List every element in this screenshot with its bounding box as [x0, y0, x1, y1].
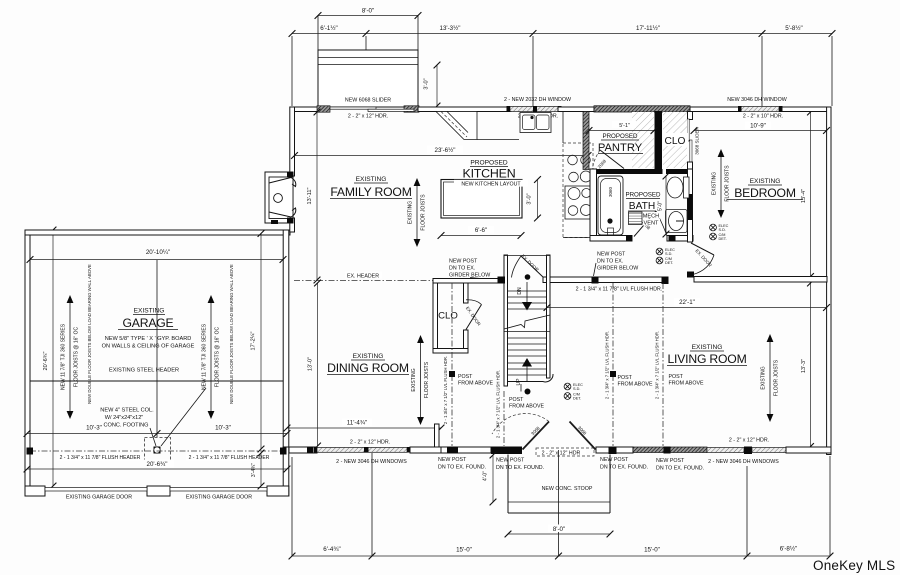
svg-text:PANTRY: PANTRY — [598, 142, 643, 154]
svg-text:LIVING ROOM: LIVING ROOM — [667, 352, 746, 366]
family room west wall — [290, 107, 295, 176]
svg-text:DN TO EX. FOUND.: DN TO EX. FOUND. — [600, 465, 648, 471]
svg-text:NEW 5/8" TYPE ' X ' GYP. BOARD: NEW 5/8" TYPE ' X ' GYP. BOARD — [105, 336, 192, 342]
svg-text:BEDROOM: BEDROOM — [734, 186, 796, 200]
family floor joists arrow — [416, 185, 418, 240]
clo interior hatch — [663, 112, 687, 168]
wall right of entry — [596, 447, 633, 453]
svg-text:FLOOR JOISTS: FLOOR JOISTS — [774, 359, 780, 396]
svg-text:EXISTING: EXISTING — [761, 366, 767, 389]
bath west wall — [590, 169, 597, 237]
svg-text:15'-0": 15'-0" — [456, 547, 472, 554]
left dimension 20-6 — [52, 230, 54, 486]
bottom wall dining segment — [289, 447, 317, 453]
svg-text:GIRDER BELOW: GIRDER BELOW — [597, 266, 638, 272]
stair treads upper — [508, 290, 547, 292]
bedroom entry door ex door — [691, 243, 714, 255]
garage dimension 17-2 right — [260, 234, 262, 450]
svg-text:NEW DOUBLE FLOOR JOISTS BELOW: NEW DOUBLE FLOOR JOISTS BELOW LOAD BEARI… — [229, 264, 234, 404]
pantry/bath divider wall — [590, 169, 663, 174]
svg-text:2 - 1 3/4" x 7 1/2" LVL FLUSH: 2 - 1 3/4" x 7 1/2" LVL FLUSH HDR. — [605, 331, 610, 399]
svg-text:EXISTING: EXISTING — [408, 201, 414, 224]
svg-text:8'-0": 8'-0" — [362, 8, 374, 15]
fireplace — [265, 172, 293, 223]
pantry/closet top wall (new, hatched) — [594, 106, 690, 112]
svg-text:NEW POST: NEW POST — [600, 457, 629, 463]
svg-text:NEW KITCHEN LAYOUT: NEW KITCHEN LAYOUT — [461, 182, 521, 188]
svg-text:NEW 3046 DH WINDOW: NEW 3046 DH WINDOW — [727, 97, 786, 103]
svg-text:FROM ABOVE: FROM ABOVE — [618, 382, 653, 388]
kitchen window 2-2032 — [510, 107, 558, 112]
deck / landing at slider — [318, 50, 418, 107]
bath dimension 5-0 — [665, 176, 667, 234]
svg-text:2 - NEW 3046 DH WINDOWS: 2 - NEW 3046 DH WINDOWS — [336, 459, 407, 465]
svg-text:NEW CONC. STOOP: NEW CONC. STOOP — [542, 486, 593, 492]
beam line B — [503, 391, 505, 446]
svg-text:2 - 1 3/4" x 11 7/8" FLUSH HEA: 2 - 1 3/4" x 11 7/8" FLUSH HEADER — [60, 455, 141, 461]
svg-text:13'-4": 13'-4" — [801, 189, 807, 203]
svg-text:6'-4¾": 6'-4¾" — [323, 546, 340, 553]
beam line A — [451, 283, 453, 446]
svg-text:3'-0": 3'-0" — [527, 193, 533, 204]
garage dimension 3-4 right — [260, 453, 262, 486]
dining south stub wall — [435, 424, 440, 447]
low hatched wall — [633, 447, 707, 453]
dimension 3-0 deck — [436, 65, 438, 106]
svg-text:S.D.: S.D. — [573, 387, 580, 391]
svg-text:W/ 24"x24"x12": W/ 24"x24"x12" — [105, 415, 144, 421]
svg-text:FLOOR JOISTS @ 16" OC: FLOOR JOISTS @ 16" OC — [215, 327, 221, 388]
svg-text:11'-4¾": 11'-4¾" — [347, 420, 367, 427]
svg-text:FLOOR JOISTS: FLOOR JOISTS — [424, 361, 430, 398]
clo east wall + slider — [688, 112, 693, 120]
bath east wall — [688, 169, 693, 242]
dining dimension 13-0 — [317, 283, 319, 446]
svg-text:POST: POST — [458, 374, 473, 380]
svg-text:EXISTING: EXISTING — [134, 308, 165, 315]
svg-text:NEW 11 7/8" TJI 360 SERIES: NEW 11 7/8" TJI 360 SERIES — [202, 323, 208, 390]
entry door right 3068 — [570, 422, 596, 450]
svg-text:23'-6½": 23'-6½" — [435, 147, 456, 154]
post from above stairs — [525, 389, 531, 395]
svg-text:NEW POST: NEW POST — [438, 457, 467, 463]
svg-text:EXISTING: EXISTING — [353, 353, 384, 360]
dimension 6-6 island — [441, 235, 521, 237]
svg-text:NEW 6068 SLIDER: NEW 6068 SLIDER — [345, 98, 391, 104]
svg-text:13'-3": 13'-3" — [801, 359, 807, 373]
right dimension 13-3 living — [810, 283, 812, 447]
stair UP arrow — [526, 366, 528, 381]
bedroom south wall — [694, 277, 827, 283]
garage joist labels left — [69, 302, 71, 412]
svg-text:NEW 4" STEEL COL.: NEW 4" STEEL COL. — [100, 408, 154, 414]
svg-text:2 - 2" x 12" HDR: 2 - 2" x 12" HDR — [542, 451, 581, 457]
svg-text:3'-0": 3'-0" — [424, 78, 430, 89]
svg-text:NEW 11 7/8" TJI 360 SERIES: NEW 11 7/8" TJI 360 SERIES — [61, 323, 67, 390]
svg-text:FLOOR JOISTS @ 16" OC: FLOOR JOISTS @ 16" OC — [74, 327, 80, 388]
kitchen island — [441, 180, 522, 219]
svg-text:15'-0": 15'-0" — [644, 547, 660, 554]
svg-text:10'-9": 10'-9" — [750, 123, 766, 130]
svg-text:20'-6¾": 20'-6¾" — [147, 461, 168, 468]
living windows 2-3046 — [707, 448, 744, 453]
new 6068 slider — [317, 106, 330, 112]
svg-text:22'-1": 22'-1" — [679, 299, 695, 306]
svg-text:20'-6¾": 20'-6¾" — [43, 352, 49, 371]
living floor joists — [769, 341, 771, 415]
lvl flush header wall — [543, 277, 663, 283]
bedroom floor joists — [720, 156, 722, 211]
svg-text:13'-0": 13'-0" — [308, 357, 314, 371]
dining dimension 11-4 — [287, 427, 441, 429]
svg-text:2 - 1 3/4" x 7 1/2" LVL FLUSH: 2 - 1 3/4" x 7 1/2" LVL FLUSH HDR. — [443, 356, 448, 424]
svg-text:DN: DN — [517, 287, 523, 295]
svg-text:DN TO EX. FOUND.: DN TO EX. FOUND. — [656, 466, 704, 472]
kitchen counter edge — [562, 112, 564, 143]
svg-text:2 - 2" x 10" HDR.: 2 - 2" x 10" HDR. — [743, 114, 783, 120]
stoop dimension 8-0 — [508, 533, 610, 535]
right wall — [827, 107, 831, 455]
svg-text:2 - NEW 2032 DH WINDOW: 2 - NEW 2032 DH WINDOW — [504, 97, 571, 103]
svg-text:2 - 2" x 12" HDR.: 2 - 2" x 12" HDR. — [350, 440, 390, 446]
garage joist labels right — [210, 302, 212, 412]
svg-text:8'-0": 8'-0" — [553, 526, 565, 533]
stoop dimension 4-0 — [492, 455, 494, 502]
svg-text:EXISTING STEEL HEADER: EXISTING STEEL HEADER — [109, 368, 179, 374]
stair top ex door — [521, 256, 544, 278]
garage front wall jambs — [25, 486, 45, 496]
toilet — [684, 177, 690, 198]
bath sink — [666, 210, 688, 233]
bedroom dimension 10-9 — [694, 130, 827, 132]
svg-text:POST: POST — [618, 375, 633, 381]
svg-text:PROPOSED: PROPOSED — [625, 192, 661, 199]
svg-text:FROM ABOVE: FROM ABOVE — [509, 404, 544, 410]
stairwell walls — [504, 255, 508, 386]
svg-text:10'-3": 10'-3" — [86, 425, 102, 432]
svg-text:DET.: DET. — [573, 397, 581, 401]
svg-text:GIRDER BELOW: GIRDER BELOW — [449, 273, 490, 279]
kitchen counter/range dashed — [563, 143, 593, 238]
entry south wall black — [491, 447, 522, 455]
svg-text:13'-3½": 13'-3½" — [440, 25, 461, 32]
svg-text:EXISTING: EXISTING — [750, 178, 781, 185]
svg-text:DN TO EX.: DN TO EX. — [597, 259, 623, 265]
dining clo door — [466, 305, 482, 330]
range — [565, 186, 593, 219]
svg-text:ON WALLS & CEILING OF GARAGE: ON WALLS & CEILING OF GARAGE — [102, 344, 195, 350]
svg-text:NEW POST: NEW POST — [449, 259, 478, 265]
svg-text:FLOOR JOISTS: FLOOR JOISTS — [725, 165, 731, 202]
svg-text:FROM ABOVE: FROM ABOVE — [669, 381, 704, 387]
entry header dashed — [536, 448, 594, 456]
svg-text:EXISTING: EXISTING — [356, 176, 387, 183]
top wall segments — [290, 107, 318, 112]
living dimension 22-1 — [547, 307, 827, 309]
dining floor joists — [420, 342, 422, 418]
svg-text:EX. HEADER: EX. HEADER — [347, 274, 379, 280]
svg-text:10'-3": 10'-3" — [215, 425, 231, 432]
svg-text:PROPOSED: PROPOSED — [602, 133, 638, 140]
garage outer walls — [25, 230, 290, 235]
svg-text:6'-8½": 6'-8½" — [780, 546, 797, 553]
svg-text:FLOOR JOISTS: FLOOR JOISTS — [421, 194, 427, 231]
svg-text:DET.: DET. — [719, 237, 727, 241]
bottom dimension row 6-4 / 15-0 / 15-0 / 6-8 — [292, 555, 830, 557]
existing garage door left — [45, 488, 147, 492]
new conc stoop — [507, 455, 509, 514]
svg-text:NEW POST: NEW POST — [597, 252, 626, 258]
svg-text:EXISTING: EXISTING — [411, 368, 417, 391]
svg-text:EXISTING GARAGE DOOR: EXISTING GARAGE DOOR — [186, 495, 252, 501]
svg-text:NEW POST: NEW POST — [656, 458, 685, 464]
kitchen sink — [520, 113, 551, 133]
svg-text:CONC. FOOTING: CONC. FOOTING — [103, 423, 148, 429]
svg-text:BATH: BATH — [629, 201, 655, 212]
svg-text:2 - 1 3/4" x 7 1/2" LVL FLUSH: 2 - 1 3/4" x 7 1/2" LVL FLUSH HDR. — [496, 370, 501, 438]
garage center extension line — [156, 260, 158, 437]
ex header line — [294, 280, 433, 282]
bath label — [626, 191, 660, 198]
entry door left 3068 — [523, 422, 550, 450]
svg-text:20'-10¼": 20'-10¼" — [146, 249, 170, 256]
dining windows 2-3046 — [317, 448, 407, 453]
svg-text:POST: POST — [669, 374, 684, 380]
bedroom smoke detector symbols — [710, 224, 717, 231]
stair treads lower — [508, 337, 547, 339]
pantry door 2068 — [600, 150, 624, 169]
beam line C — [612, 283, 614, 446]
pantry/clo divider wall — [655, 111, 663, 170]
dimension 13-11 family — [316, 112, 318, 280]
svg-text:DN TO EX.: DN TO EX. — [449, 266, 475, 272]
svg-text:KITCHEN: KITCHEN — [463, 167, 516, 181]
right dimension 13-4 bedroom — [810, 112, 812, 277]
svg-text:EXISTING GARAGE DOOR: EXISTING GARAGE DOOR — [66, 495, 132, 501]
svg-text:NEW POST: NEW POST — [496, 458, 525, 464]
garage flush header dash line — [30, 450, 283, 452]
dining clo walls — [433, 279, 505, 284]
bath door 2868 — [634, 211, 656, 237]
stair DN arrow — [526, 282, 528, 303]
svg-text:S.D.: S.D. — [665, 252, 672, 256]
svg-text:PROPOSED: PROPOSED — [470, 160, 508, 167]
svg-text:GARAGE: GARAGE — [123, 316, 174, 330]
wall segment with post — [441, 447, 491, 453]
corner cabinet — [436, 112, 477, 140]
svg-text:2 - 1 3/4" x 11 7/8" LVL FLUSH: 2 - 1 3/4" x 11 7/8" LVL FLUSH HDR. — [576, 287, 663, 293]
dimension 23-6 — [295, 155, 589, 157]
svg-text:6'-1½": 6'-1½" — [320, 25, 337, 32]
svg-text:2 - 1 3/4" x 7 1/2" LVL FLUSH: 2 - 1 3/4" x 7 1/2" LVL FLUSH HDR. — [655, 331, 660, 399]
svg-text:6'-6": 6'-6" — [475, 227, 487, 234]
svg-text:DN TO EX. FOUND.: DN TO EX. FOUND. — [496, 465, 544, 471]
bedroom window 3046 — [741, 107, 779, 112]
tub — [598, 176, 623, 235]
existing garage door right — [170, 488, 267, 492]
svg-text:4'-0": 4'-0" — [483, 471, 489, 481]
svg-text:2 - 2" x 12" HDR.: 2 - 2" x 12" HDR. — [729, 438, 769, 444]
svg-text:5'-0": 5'-0" — [658, 201, 664, 211]
mech vent — [629, 212, 643, 225]
svg-text:17'-11½": 17'-11½" — [636, 25, 660, 32]
stair bottom rail — [508, 381, 544, 383]
stair break line — [504, 315, 550, 329]
dimension row 6-1 / 13-3 / 17-11 / 5-8 — [292, 33, 832, 35]
svg-text:FROM ABOVE: FROM ABOVE — [458, 381, 493, 387]
pantry west wall — [583, 112, 589, 170]
pantry dimension 5-1 — [589, 130, 654, 132]
svg-text:OneKey MLS: OneKey MLS — [813, 558, 895, 573]
svg-text:VENT: VENT — [644, 221, 660, 227]
svg-text:CLO: CLO — [665, 136, 686, 147]
svg-text:5'-1": 5'-1" — [619, 123, 630, 129]
svg-text:2 - 2" x 12" HDR.: 2 - 2" x 12" HDR. — [348, 114, 388, 120]
living smoke detector symbols — [564, 383, 571, 390]
svg-text:MECH: MECH — [643, 214, 659, 220]
svg-text:S.D.: S.D. — [719, 228, 726, 232]
svg-text:2 - NEW 3046 DH WINDOWS: 2 - NEW 3046 DH WINDOWS — [708, 459, 779, 465]
svg-text:DINING ROOM: DINING ROOM — [327, 361, 409, 375]
svg-text:DN TO EX. FOUND.: DN TO EX. FOUND. — [438, 465, 486, 471]
svg-text:FAMILY ROOM: FAMILY ROOM — [330, 185, 411, 199]
svg-text:EXISTING: EXISTING — [712, 172, 718, 195]
garage dimension 20-6 bottom — [27, 468, 287, 470]
svg-text:EXISTING: EXISTING — [692, 344, 723, 351]
svg-text:13'-11": 13'-11" — [307, 188, 313, 205]
svg-text:POST: POST — [509, 397, 524, 403]
bath south wall — [590, 236, 632, 242]
svg-text:DET.: DET. — [665, 261, 673, 265]
svg-text:NEW DOUBLE FLOOR JOISTS BELOW: NEW DOUBLE FLOOR JOISTS BELOW LOAD BEARI… — [87, 264, 92, 404]
svg-text:3060: 3060 — [608, 186, 613, 197]
svg-text:3'-4¾": 3'-4¾" — [251, 463, 257, 477]
beam line D — [662, 283, 664, 446]
hall smoke detector symbols — [656, 248, 663, 255]
svg-text:5'-8½": 5'-8½" — [785, 25, 802, 32]
svg-text:17'-2¼": 17'-2¼" — [251, 332, 257, 351]
dimension 3-0 island — [537, 180, 539, 219]
svg-text:CLO: CLO — [438, 311, 458, 322]
